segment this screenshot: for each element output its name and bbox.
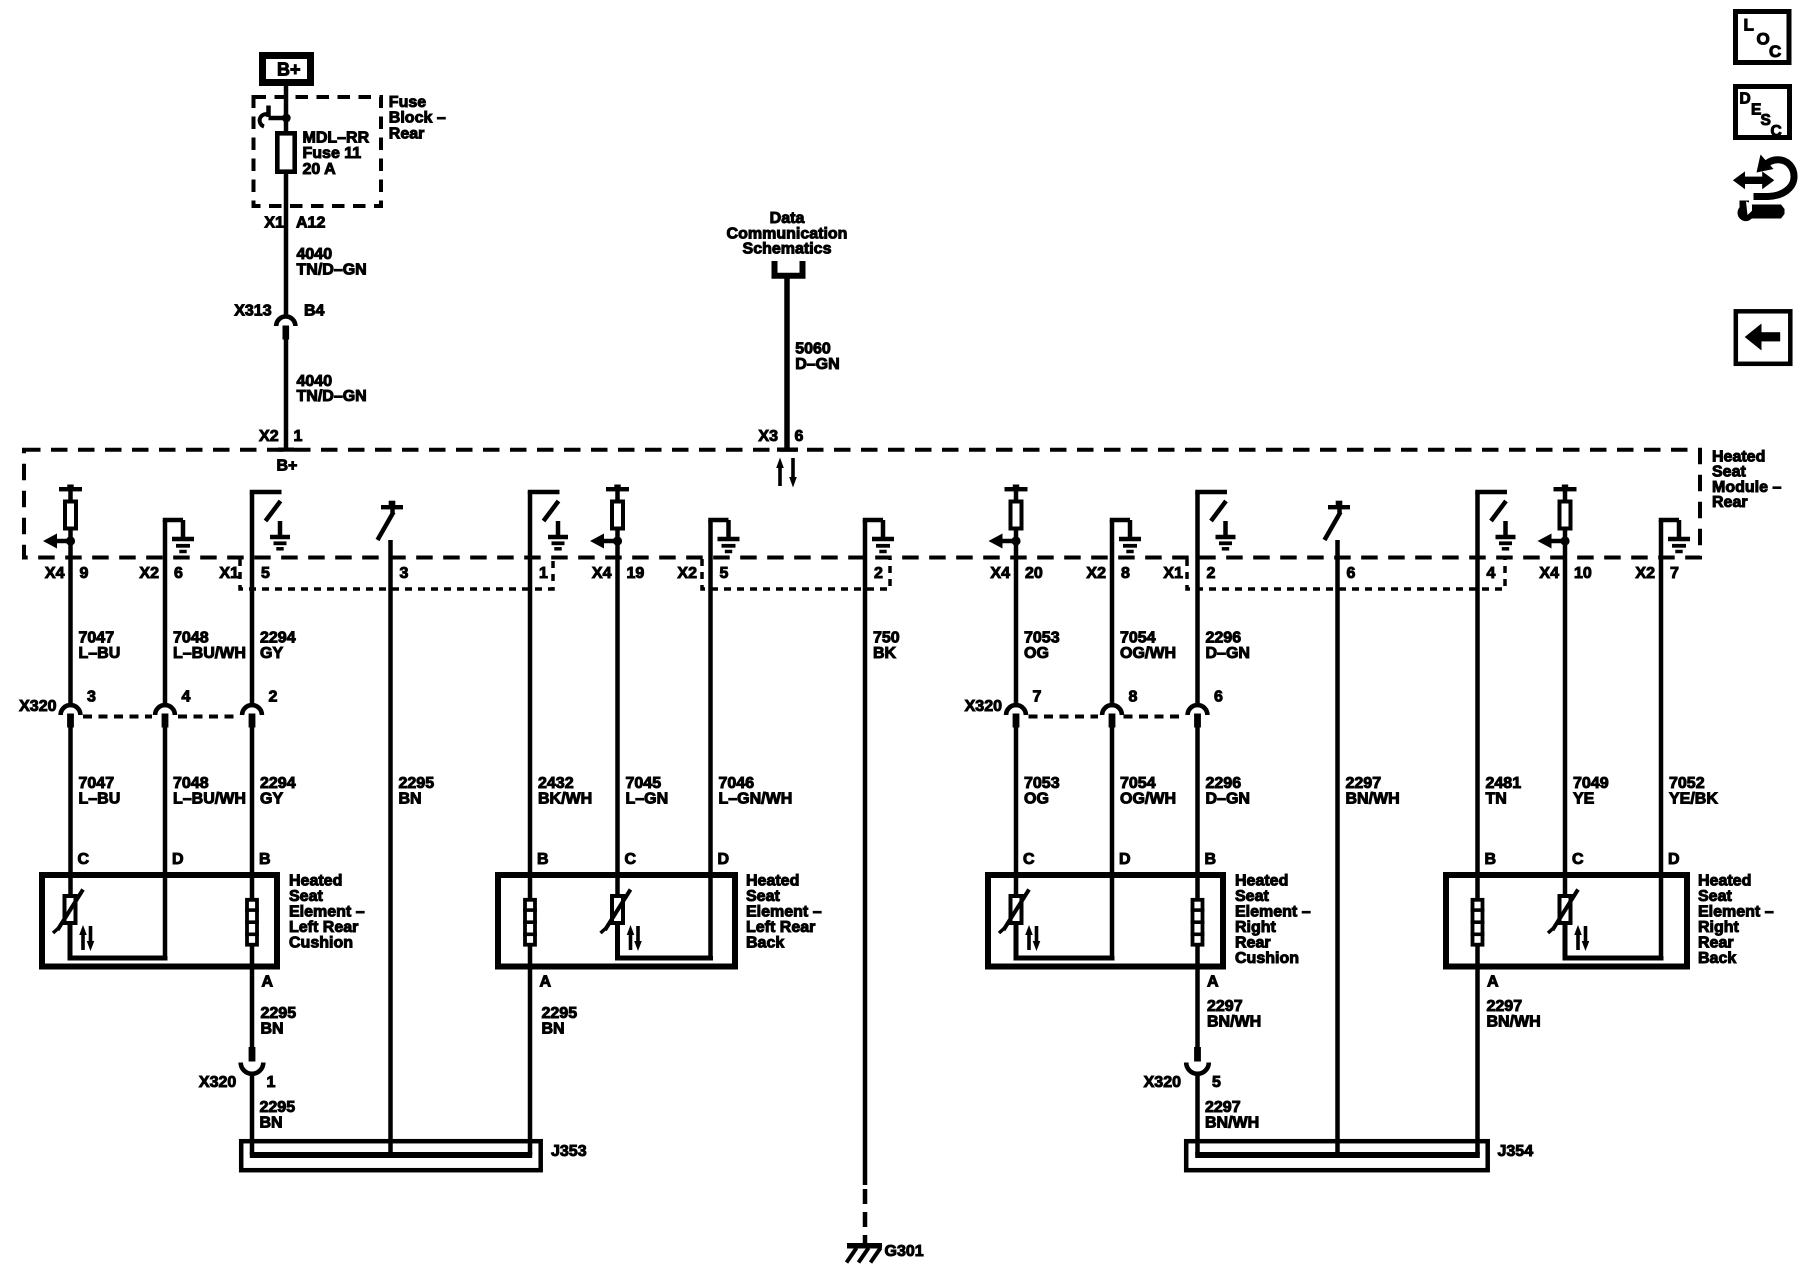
- wire module to X320 pin 7: [1014, 558, 1019, 704]
- label X2 pin 1: [259, 428, 302, 445]
- svg-text:TN: TN: [1486, 791, 1507, 808]
- label Fuse Block - Rear: [389, 94, 446, 142]
- svg-text:D–GN: D–GN: [795, 356, 839, 373]
- label terminal A at 530: [540, 974, 552, 991]
- label circuit 7053 OG: [1024, 775, 1060, 808]
- svg-text:G301: G301: [885, 1243, 924, 1260]
- svg-text:2432: 2432: [538, 775, 574, 792]
- svg-text:10: 10: [1574, 565, 1592, 582]
- wire 2297 BN/WH right cushion A to X320 5: [1195, 945, 1200, 1047]
- icon LOC button: [1736, 12, 1790, 63]
- svg-text:OG/WH: OG/WH: [1120, 791, 1176, 808]
- label terminal D at 710.5: [718, 851, 730, 868]
- svg-text:5: 5: [720, 565, 729, 582]
- svg-text:2297: 2297: [1205, 1099, 1241, 1116]
- svg-text:Element –: Element –: [1235, 904, 1311, 921]
- label terminal A at 252: [262, 974, 274, 991]
- wire 2295 BN X320 to J353: [250, 1076, 255, 1156]
- svg-text:D: D: [1668, 851, 1680, 868]
- label circuit 2295 BN (left back A): [542, 1005, 578, 1038]
- svg-text:2297: 2297: [1207, 998, 1243, 1015]
- connector X2 pin group dotted box (left): [702, 559, 890, 589]
- module internal switched ground driver at pin X1 2: [1195, 492, 1235, 558]
- svg-text:D: D: [172, 851, 184, 868]
- svg-text:Heated: Heated: [746, 873, 799, 890]
- module internal ground return at pin X2 7: [1659, 520, 1690, 558]
- label X320 pin 5: [1144, 1074, 1221, 1091]
- label module pin X2 7: [1635, 565, 1679, 582]
- Heated Seat Module - Rear dashed outline: [24, 450, 1700, 558]
- module internal temperature sense output at pin X4 9: [43, 485, 82, 559]
- svg-text:Element –: Element –: [1698, 904, 1774, 921]
- svg-text:A: A: [262, 974, 274, 991]
- svg-text:BN: BN: [542, 1021, 565, 1038]
- svg-text:2297: 2297: [1346, 775, 1382, 792]
- svg-text:X4: X4: [45, 565, 65, 582]
- label circuit 2297 BN/WH (right cushion A): [1207, 998, 1261, 1031]
- fuse MDL-RR Fuse 11 20A: [277, 133, 294, 171]
- svg-text:8: 8: [1129, 689, 1138, 706]
- fuse block rear dashed box: [254, 97, 382, 206]
- module internal switch contact at pin 3: [378, 501, 404, 558]
- label circuit 2297 BN/WH (right back A): [1487, 998, 1541, 1031]
- svg-text:7048: 7048: [173, 630, 209, 647]
- heater element Right Rear Cushion: [1191, 900, 1205, 945]
- label circuit 4040 TN/D-GN upper: [297, 246, 367, 278]
- svg-text:Back: Back: [1698, 950, 1736, 967]
- svg-text:7052: 7052: [1669, 775, 1705, 792]
- svg-text:C: C: [1023, 851, 1035, 868]
- label X320 pin 7: [1033, 689, 1042, 706]
- label circuit 7048 L&#8211;BU/WH: [173, 775, 246, 808]
- wire module to X320 pin 6: [1195, 558, 1200, 704]
- svg-text:4: 4: [1487, 565, 1496, 582]
- svg-text:GY: GY: [260, 791, 283, 808]
- svg-text:4: 4: [182, 689, 191, 706]
- label X320 pin 2: [269, 689, 278, 706]
- label circuit 2432 BK/WH: [538, 775, 592, 808]
- svg-text:X313: X313: [234, 303, 271, 320]
- label terminal B at 530: [537, 851, 549, 868]
- svg-text:Cushion: Cushion: [1235, 950, 1299, 967]
- svg-text:750: 750: [873, 630, 900, 647]
- svg-text:Fuse 11: Fuse 11: [303, 145, 362, 162]
- power node B+: [263, 56, 311, 83]
- ground G301: [847, 1246, 883, 1263]
- label X320 pin 1: [199, 1074, 276, 1091]
- svg-text:BN: BN: [261, 1021, 284, 1038]
- svg-text:X4: X4: [592, 565, 612, 582]
- svg-text:C: C: [1572, 851, 1584, 868]
- heated seat element box Left Rear Back: [498, 875, 735, 967]
- label circuit 7047 L&#8211;BU: [79, 775, 121, 808]
- svg-text:YE: YE: [1573, 791, 1595, 808]
- label circuit 7049 YE: [1573, 775, 1609, 808]
- svg-text:J354: J354: [1498, 1143, 1534, 1160]
- wire module to X320 pin 8: [1110, 558, 1115, 704]
- connector X320 pin 7: [1006, 705, 1026, 727]
- label X320 (left row): [19, 698, 56, 715]
- svg-text:2295: 2295: [399, 775, 435, 792]
- svg-text:Seat: Seat: [289, 888, 323, 905]
- svg-text:7: 7: [1670, 565, 1679, 582]
- wire 5060 D-GN: [784, 279, 790, 451]
- svg-text:B: B: [1485, 851, 1497, 868]
- svg-text:Seat: Seat: [746, 888, 780, 905]
- svg-text:GY: GY: [260, 645, 283, 662]
- fuse terminal clip: [260, 106, 291, 127]
- svg-text:BN/WH: BN/WH: [1205, 1115, 1259, 1132]
- svg-text:D: D: [718, 851, 730, 868]
- label circuit 7046 L&#8211;GN/WH: [719, 775, 793, 808]
- wire 7052 YE/BK module pin 7 to seat element: [1659, 558, 1664, 958]
- svg-text:C: C: [625, 851, 637, 868]
- svg-text:C: C: [78, 851, 90, 868]
- svg-text:C: C: [1769, 42, 1781, 61]
- module internal ground return at pin 2: [863, 520, 894, 558]
- wire 2297 BN/WH X320 to J354: [1195, 1076, 1200, 1156]
- label terminal C at 1016: [1023, 851, 1035, 868]
- module internal switch contact at pin 6: [1325, 501, 1351, 558]
- label X320 pin 4: [182, 689, 191, 706]
- label module pin 4: [1487, 565, 1496, 582]
- svg-text:Cushion: Cushion: [289, 935, 353, 952]
- svg-text:5: 5: [261, 565, 270, 582]
- svg-text:X2: X2: [1086, 565, 1106, 582]
- module internal ground return at pin X2 6: [163, 520, 194, 558]
- wire 2297 BN/WH module pin 6 to J354: [1335, 558, 1340, 1155]
- svg-text:A: A: [1487, 974, 1499, 991]
- heated seat element box Right Rear Back: [1446, 875, 1687, 967]
- svg-text:BN/WH: BN/WH: [1346, 791, 1400, 808]
- label module pin 2: [874, 565, 883, 582]
- svg-text:X1: X1: [1163, 565, 1183, 582]
- label circuit 7052 YE/BK: [1669, 775, 1718, 808]
- label module pin 6: [1347, 565, 1356, 582]
- svg-text:OG/WH: OG/WH: [1120, 645, 1176, 662]
- wire X320 to seat element (1197.5): [1195, 728, 1200, 900]
- svg-text:7045: 7045: [626, 775, 662, 792]
- svg-text:7047: 7047: [79, 775, 115, 792]
- svg-text:A12: A12: [296, 215, 325, 232]
- heated seat element box Left Rear Cushion: [42, 875, 277, 967]
- label J353: [551, 1143, 587, 1160]
- connector X320 pin 4: [155, 705, 175, 727]
- svg-text:O: O: [1757, 30, 1770, 49]
- label circuit 750: [873, 630, 900, 663]
- label terminal B at 1477.5: [1485, 851, 1497, 868]
- wire X320 to seat element (165): [163, 728, 168, 959]
- label circuit 7054: [1120, 630, 1176, 663]
- heater element Right Rear Back: [1471, 900, 1485, 945]
- svg-text:Schematics: Schematics: [743, 241, 832, 258]
- thermistor return path Left Rear Back: [618, 923, 711, 958]
- svg-text:X4: X4: [1539, 565, 1559, 582]
- label module pin X2 8: [1086, 565, 1130, 582]
- wire X313 to module: [284, 340, 289, 451]
- wire module to X320 pin 2: [250, 558, 255, 704]
- label Left Rear Back: [746, 873, 822, 952]
- thermistor Left Rear Cushion: [53, 890, 94, 952]
- svg-text:L–BU/WH: L–BU/WH: [173, 645, 246, 662]
- X320 connector dashed links (right): [1029, 715, 1185, 719]
- svg-text:Right: Right: [1698, 919, 1740, 936]
- icon data exchange with tool (double arrow, hook arrow, wrench): [1733, 155, 1794, 222]
- label Heated Seat Module - Rear: [1712, 449, 1781, 512]
- thermistor Left Rear Back: [601, 890, 642, 952]
- label X320 pin 6: [1214, 689, 1223, 706]
- label terminal B at 252: [259, 851, 271, 868]
- svg-text:C: C: [1771, 123, 1782, 140]
- svg-text:2295: 2295: [260, 1099, 296, 1116]
- svg-text:L–BU: L–BU: [79, 645, 121, 662]
- svg-text:3: 3: [87, 689, 96, 706]
- svg-text:YE/BK: YE/BK: [1669, 791, 1718, 808]
- label terminal C at 617.5: [625, 851, 637, 868]
- svg-text:Seat: Seat: [1235, 888, 1269, 905]
- wire fuse to X313: [284, 172, 289, 317]
- label circuit 7053: [1024, 630, 1060, 663]
- svg-text:Heated: Heated: [289, 873, 342, 890]
- connector X320 pin 2: [242, 705, 262, 727]
- svg-text:X1: X1: [264, 215, 284, 232]
- svg-text:2: 2: [1207, 565, 1216, 582]
- svg-text:BN: BN: [399, 791, 422, 808]
- svg-text:6: 6: [1347, 565, 1356, 582]
- svg-text:X3: X3: [758, 428, 778, 445]
- module internal switched ground driver at pin X1 5: [250, 492, 290, 558]
- svg-text:Left Rear: Left Rear: [746, 919, 815, 936]
- label X320 (right row): [965, 698, 1002, 715]
- connector X320 pin 8: [1102, 705, 1122, 727]
- label module pin X4 20: [990, 565, 1042, 582]
- wire X320 to seat element (1112): [1110, 728, 1115, 959]
- label circuit 2295 BN (left cushion A): [261, 1005, 297, 1038]
- module internal ground return at pin X2 5: [708, 520, 739, 558]
- label module pin 1: [539, 565, 548, 582]
- label circuit 2296: [1206, 630, 1250, 663]
- svg-text:L–GN: L–GN: [626, 791, 669, 808]
- svg-text:Rear: Rear: [1712, 494, 1748, 511]
- svg-text:D: D: [1740, 91, 1751, 108]
- svg-text:B+: B+: [277, 60, 301, 80]
- svg-text:2: 2: [269, 689, 278, 706]
- svg-text:2294: 2294: [260, 775, 296, 792]
- label circuit 7047: [79, 630, 121, 663]
- label terminal C at 1565: [1572, 851, 1584, 868]
- label terminal C at 70.5: [78, 851, 90, 868]
- svg-text:Element –: Element –: [289, 904, 365, 921]
- svg-text:3: 3: [400, 565, 409, 582]
- svg-text:D–GN: D–GN: [1206, 791, 1250, 808]
- wire 2295 BN left back A to J353: [528, 945, 533, 1155]
- svg-text:B: B: [537, 851, 549, 868]
- svg-text:9: 9: [80, 565, 89, 582]
- svg-text:Fuse: Fuse: [389, 94, 426, 111]
- icon back arrow button: [1736, 311, 1791, 364]
- svg-text:J353: J353: [551, 1143, 587, 1160]
- svg-text:6: 6: [795, 428, 804, 445]
- svg-text:L–BU: L–BU: [79, 791, 121, 808]
- svg-text:2294: 2294: [260, 630, 296, 647]
- label module pin X2 6: [139, 565, 183, 582]
- label B+ module pin: [277, 458, 298, 475]
- svg-text:B: B: [259, 851, 271, 868]
- label module pin X2 5: [677, 565, 728, 582]
- wire module to X320 pin 3: [68, 558, 73, 704]
- svg-text:L–GN/WH: L–GN/WH: [719, 791, 793, 808]
- icon DESC button: [1736, 87, 1790, 141]
- svg-text:BK: BK: [873, 645, 897, 662]
- data bus arrows: [776, 458, 797, 488]
- svg-text:6: 6: [174, 565, 183, 582]
- svg-text:D–GN: D–GN: [1206, 645, 1250, 662]
- svg-text:S: S: [1761, 112, 1771, 129]
- svg-text:X320: X320: [199, 1074, 236, 1091]
- wire 7046 L-GN/WH module pin 5 to seat element: [708, 558, 713, 958]
- wire 2432 BK/WH module pin 1 to seat element: [528, 558, 533, 900]
- svg-text:A: A: [540, 974, 552, 991]
- label MDL-RR Fuse 11 20 A: [303, 130, 370, 178]
- node Data Communication Schematics: [727, 210, 848, 276]
- svg-text:20 A: 20 A: [303, 161, 337, 178]
- label circuit 2296 D&#8211;GN: [1206, 775, 1250, 808]
- label terminal A at 1477.5: [1487, 974, 1499, 991]
- svg-text:7054: 7054: [1120, 630, 1156, 647]
- label terminal A at 1197.5: [1207, 974, 1219, 991]
- thermistor Right Rear Cushion: [999, 890, 1040, 952]
- svg-text:2295: 2295: [261, 1005, 297, 1022]
- label module pin X4 9: [45, 565, 89, 582]
- connector X320 pin 6: [1188, 705, 1208, 727]
- module internal ground return at pin X2 8: [1110, 520, 1141, 558]
- label module pin X4 10: [1539, 565, 1591, 582]
- wire 750 BK module pin 2 to G301: [863, 558, 868, 1185]
- label circuit 2297 BN/WH: [1346, 775, 1400, 808]
- svg-text:MDL–RR: MDL–RR: [303, 130, 370, 147]
- svg-text:D: D: [1119, 851, 1131, 868]
- heater element Left Rear Back: [523, 900, 537, 945]
- svg-text:L: L: [1744, 16, 1754, 35]
- svg-text:2297: 2297: [1487, 998, 1523, 1015]
- thermistor Right Rear Back: [1548, 890, 1589, 952]
- connector X313 B4: [276, 316, 295, 339]
- wire termination at X3 6: [777, 448, 798, 452]
- svg-text:X2: X2: [259, 428, 279, 445]
- svg-text:1: 1: [267, 1074, 276, 1091]
- label circuit 7045 L&#8211;GN: [626, 775, 669, 808]
- svg-text:BN: BN: [260, 1115, 283, 1132]
- svg-text:TN/D–GN: TN/D–GN: [297, 388, 367, 405]
- label circuit 2297 BN/WH (to J354): [1205, 1099, 1259, 1132]
- wire 2481 TN module pin 4 to seat element: [1475, 558, 1480, 900]
- svg-text:Back: Back: [746, 935, 784, 952]
- label terminal D at 165: [172, 851, 184, 868]
- svg-text:7048: 7048: [173, 775, 209, 792]
- svg-text:Heated: Heated: [1235, 873, 1288, 890]
- connector X320 pin 3: [61, 705, 81, 727]
- svg-text:X2: X2: [139, 565, 159, 582]
- svg-text:2296: 2296: [1206, 630, 1242, 647]
- svg-text:OG: OG: [1024, 645, 1049, 662]
- label terminal D at 1112: [1119, 851, 1131, 868]
- thermistor return path Left Rear Cushion: [70, 923, 165, 958]
- svg-text:Rear: Rear: [389, 125, 425, 142]
- wire 2295 BN element A to X320 1: [250, 945, 255, 1047]
- label circuit 2295 BN: [399, 775, 435, 808]
- label X320 pin 8: [1129, 689, 1138, 706]
- label module pin X1 5: [219, 565, 270, 582]
- module internal temperature sense output at pin X4 20: [989, 485, 1028, 559]
- label X3 pin 6: [758, 428, 803, 445]
- svg-text:X1: X1: [219, 565, 239, 582]
- svg-text:1: 1: [539, 565, 548, 582]
- svg-text:2: 2: [874, 565, 883, 582]
- svg-text:B4: B4: [304, 303, 325, 320]
- wire module to X320 pin 4: [163, 558, 168, 704]
- label circuit 4040 TN/D-GN lower: [297, 373, 367, 405]
- module internal temperature sense output at pin X4 19: [590, 485, 629, 559]
- svg-text:X320: X320: [19, 698, 56, 715]
- svg-text:7046: 7046: [719, 775, 755, 792]
- svg-text:7047: 7047: [79, 630, 115, 647]
- svg-text:Rear: Rear: [1235, 935, 1271, 952]
- wire 7049 YE module pin 10 to seat element: [1563, 558, 1568, 896]
- label Right Rear Back: [1698, 873, 1774, 968]
- svg-text:Rear: Rear: [1698, 935, 1734, 952]
- svg-text:7049: 7049: [1573, 775, 1609, 792]
- svg-text:A: A: [1207, 974, 1219, 991]
- heater element Left Rear Cushion: [245, 900, 259, 945]
- svg-text:X320: X320: [1144, 1074, 1181, 1091]
- label J354: [1498, 1143, 1534, 1160]
- svg-text:BN/WH: BN/WH: [1207, 1014, 1261, 1031]
- module internal temperature sense output at pin X4 10: [1538, 485, 1577, 559]
- wire termination at X2 1: [278, 448, 294, 452]
- label module pin X1 2: [1163, 565, 1215, 582]
- label X320 pin 3: [87, 689, 96, 706]
- connector X1 pin group dotted box (right): [1187, 559, 1505, 589]
- wire 750 BK dashed segment: [863, 1189, 868, 1247]
- svg-text:TN/D–GN: TN/D–GN: [297, 261, 367, 278]
- connector X320 pin 5: [1186, 1047, 1209, 1074]
- label circuit 2481 TN: [1486, 775, 1522, 808]
- wire 2295 BN module pin 3 to J353: [388, 558, 393, 1155]
- label circuit 5060 D-GN: [795, 340, 839, 372]
- label terminal D at 1661: [1668, 851, 1680, 868]
- svg-text:L–BU/WH: L–BU/WH: [173, 791, 246, 808]
- label module pin 3: [400, 565, 409, 582]
- thermistor return path Right Rear Cushion: [1016, 923, 1112, 958]
- svg-text:7053: 7053: [1024, 630, 1060, 647]
- label circuit 7048: [173, 630, 246, 663]
- svg-text:B: B: [1205, 851, 1217, 868]
- svg-text:5: 5: [1212, 1074, 1221, 1091]
- svg-text:BN/WH: BN/WH: [1487, 1014, 1541, 1031]
- svg-text:7054: 7054: [1120, 775, 1156, 792]
- svg-text:7: 7: [1033, 689, 1042, 706]
- svg-text:Left Rear: Left Rear: [289, 919, 358, 936]
- svg-text:OG: OG: [1024, 791, 1049, 808]
- svg-text:X2: X2: [1635, 565, 1655, 582]
- wire X320 to seat element (252): [250, 728, 255, 900]
- svg-text:X320: X320: [965, 698, 1002, 715]
- svg-text:2481: 2481: [1486, 775, 1522, 792]
- svg-text:X2: X2: [677, 565, 697, 582]
- svg-text:Heated: Heated: [1698, 873, 1751, 890]
- connector X320 pin 1: [241, 1047, 264, 1074]
- svg-text:8: 8: [1121, 565, 1130, 582]
